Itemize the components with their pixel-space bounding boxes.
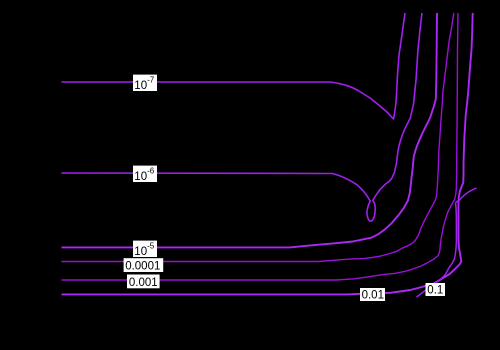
svg-text:0.0001: 0.0001	[125, 261, 160, 273]
label box 1e-7	[133, 75, 157, 92]
label box 1e-1	[426, 283, 446, 297]
label box 1e-5	[133, 241, 157, 258]
svg-text:0.001: 0.001	[129, 277, 158, 289]
contour line 1e-2	[62, 13, 473, 294]
contour line 1e-3	[62, 13, 459, 280]
svg-text:0.1: 0.1	[427, 285, 443, 297]
svg-text:0.01: 0.01	[362, 290, 384, 302]
label box 1e-6	[133, 166, 157, 183]
label box 1e-3	[127, 275, 160, 289]
contour line 1e-1	[417, 188, 477, 297]
contour line 1e-5	[62, 13, 438, 247]
contour line 1e-4	[62, 13, 454, 262]
contour line 1e-7	[62, 13, 406, 119]
label box 1e-4	[124, 258, 164, 272]
label box 1e-2	[360, 288, 385, 302]
contour line 1e-6	[62, 13, 423, 221]
